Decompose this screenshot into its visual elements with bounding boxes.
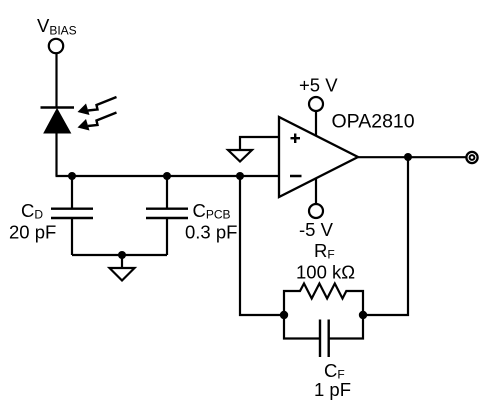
light arrow 1	[78, 97, 117, 115]
wire output	[358, 156, 466, 158]
op-amp U1 OPA2810	[279, 117, 358, 197]
svg-text:0.3 pF: 0.3 pF	[185, 221, 237, 242]
resistor RF	[284, 284, 363, 316]
ground	[110, 255, 135, 281]
ground noninverting	[228, 150, 252, 162]
light arrow 2	[78, 113, 117, 131]
wire noninverting input	[240, 137, 279, 150]
svg-text:20 pF: 20 pF	[9, 221, 56, 242]
node dot inverting input	[236, 172, 244, 180]
wire summing node	[56, 175, 280, 177]
capacitor CD	[51, 176, 93, 255]
wire	[55, 53, 57, 108]
svg-text:1 pF: 1 pF	[314, 379, 351, 400]
terminal output	[466, 152, 477, 163]
wire feedback right	[364, 157, 408, 315]
capacitor CF	[284, 315, 363, 357]
svg-text:+5 V: +5 V	[299, 74, 338, 95]
node dot feedback right	[359, 311, 367, 319]
wire ground bus	[72, 254, 167, 256]
node dot CD	[68, 172, 76, 180]
supply +5V	[299, 74, 338, 136]
svg-text:100 kΩ: 100 kΩ	[296, 262, 355, 283]
photodiode D1	[41, 108, 75, 134]
wire	[55, 133, 57, 176]
node dot output	[404, 153, 412, 161]
svg-text:-5 V: -5 V	[299, 219, 334, 240]
node dot CPCB	[163, 172, 171, 180]
terminal VBIAS	[49, 39, 63, 53]
capacitor CPCB	[146, 176, 188, 255]
node dot feedback left	[280, 311, 288, 319]
node dot ground	[118, 251, 126, 259]
supply -5V	[299, 179, 334, 241]
wire feedback left	[240, 176, 283, 315]
svg-text:OPA2810: OPA2810	[332, 110, 415, 132]
